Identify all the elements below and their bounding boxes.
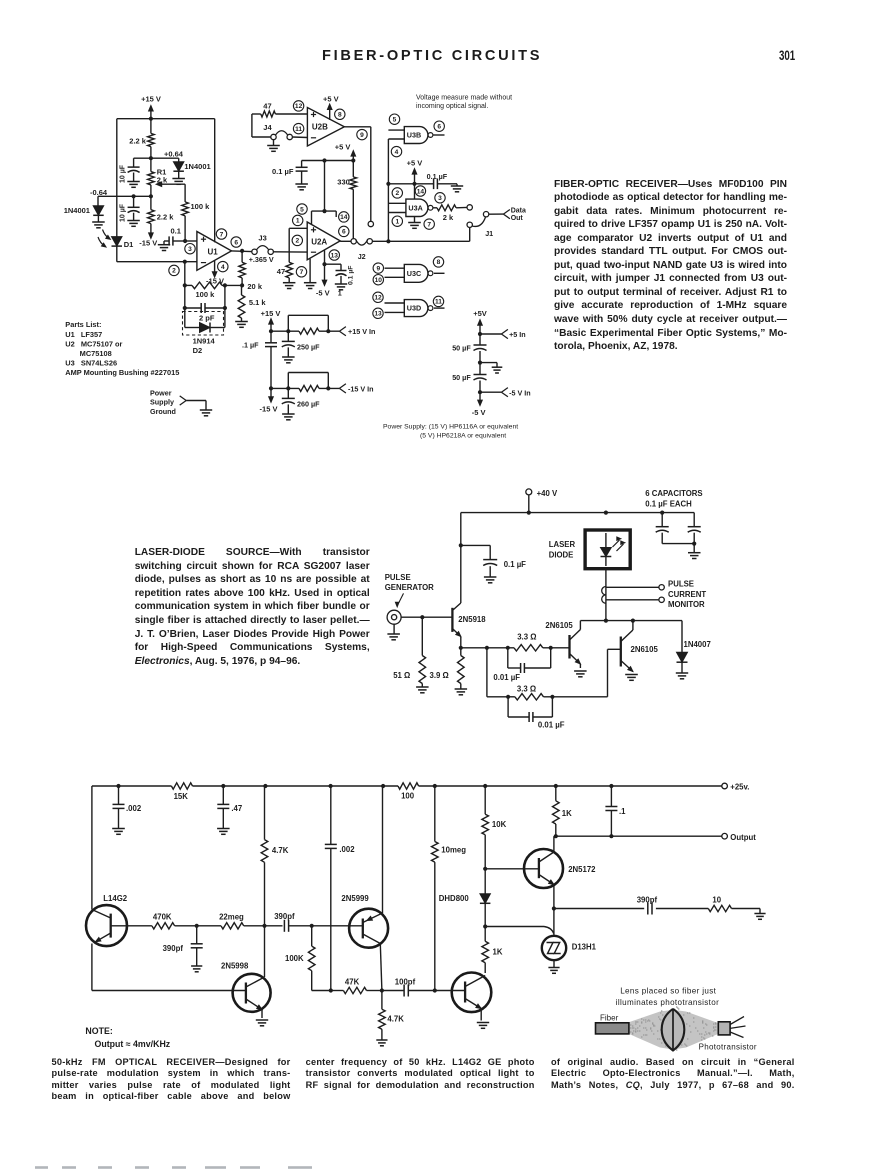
- laser cathode rail: [580, 619, 682, 623]
- svg-text:1: 1: [296, 218, 300, 225]
- svg-text:2 pF: 2 pF: [199, 314, 215, 323]
- +5V arrow right supply: [473, 309, 487, 334]
- jumper J2: [340, 239, 372, 261]
- wire node A to 10uF cap: [134, 157, 151, 159]
- capacitor 100pf: [382, 977, 435, 996]
- resistor 47 to ground at U2A input: [277, 252, 296, 288]
- resistor 22meg: [219, 913, 244, 929]
- diode 1N914 D2 in dashed box: [183, 308, 225, 355]
- svg-text:+5 V: +5 V: [323, 94, 339, 103]
- resistor 20 k: [239, 251, 263, 291]
- svg-text:J4: J4: [263, 123, 272, 132]
- svg-text:2N5918: 2N5918: [458, 615, 486, 624]
- node: [420, 615, 424, 619]
- svg-text:J1: J1: [485, 229, 493, 238]
- jumper J1: [467, 212, 493, 239]
- bias box left edge wire: [116, 119, 118, 262]
- svg-text:+15 V: +15 V: [141, 95, 161, 104]
- resistor 2.2 k upper: [129, 119, 154, 159]
- svg-text:Phototransistor: Phototransistor: [699, 1043, 757, 1052]
- svg-text:illuminates phototransistor: illuminates phototransistor: [616, 998, 719, 1007]
- svg-text:0.1: 0.1: [171, 227, 181, 236]
- bias box rail (top edge): [117, 118, 215, 120]
- capacitor 390pf shunt: [163, 926, 203, 972]
- resistor 1K lower: [482, 927, 503, 974]
- diode DHD800: [439, 894, 491, 927]
- svg-text:0.01 µF: 0.01 µF: [538, 721, 565, 730]
- left rail drop: [460, 513, 462, 603]
- transistor 2N5999: [341, 894, 388, 991]
- pin 2: [292, 235, 302, 245]
- photodiode D1: [98, 230, 133, 250]
- caption column 3: [0, 0, 894, 1]
- pin 10: [373, 275, 383, 285]
- svg-text:100pf: 100pf: [395, 977, 416, 986]
- svg-text:LASER: LASER: [549, 540, 576, 549]
- pin 6: [231, 237, 241, 247]
- resistor 2.2 k lower with -15V arrow: [139, 196, 174, 247]
- wire up-over to U2A pin1: [289, 228, 307, 252]
- svg-text:2 k: 2 k: [443, 213, 454, 222]
- svg-text:8: 8: [338, 112, 342, 119]
- svg-text:+5 V: +5 V: [335, 142, 351, 151]
- svg-text:-5 V In: -5 V In: [509, 388, 531, 397]
- row 2 tap wire: [487, 648, 510, 699]
- resistor 10meg: [432, 786, 467, 991]
- pin 8: [335, 109, 345, 119]
- wire node A to diode branch: [151, 157, 179, 159]
- svg-text:AMP Mounting Bushing #227015: AMP Mounting Bushing #227015: [65, 368, 179, 377]
- svg-text:10 µF: 10 µF: [120, 203, 127, 222]
- svg-text:MONITOR: MONITOR: [668, 600, 705, 609]
- svg-text:100 k: 100 k: [196, 290, 216, 299]
- caption: fiber-optic receiver: [0, 0, 894, 1]
- svg-text:13: 13: [374, 311, 382, 318]
- resistor 4.7K no.2: [376, 991, 404, 1046]
- page number 301: [779, 48, 795, 63]
- svg-text:3.9 Ω: 3.9 Ω: [430, 671, 449, 680]
- node: [483, 867, 487, 871]
- svg-text:U3 SN74LS26: U3 SN74LS26: [65, 358, 117, 367]
- pin 4: [391, 146, 401, 156]
- svg-text:+15 V In: +15 V In: [348, 327, 375, 336]
- svg-text:GENERATOR: GENERATOR: [385, 583, 434, 592]
- pulse current monitor terminals: [606, 580, 706, 610]
- -15 V arrow below U1: [206, 260, 224, 285]
- note output: [85, 1026, 112, 1036]
- diode 1N4007: [676, 621, 711, 679]
- node: [549, 646, 553, 650]
- svg-text:14: 14: [340, 214, 348, 221]
- caption column 2: [0, 0, 894, 1]
- resistor 15K in rail: [171, 783, 192, 801]
- NAND gate U3D: [385, 300, 445, 317]
- pin 14: [415, 186, 425, 196]
- capacitor 0.1 at U1 + input: [158, 227, 185, 251]
- node: [550, 695, 554, 699]
- pin 3: [185, 244, 195, 254]
- svg-text:.002: .002: [126, 804, 142, 813]
- +15 V arrow left supply: [261, 309, 281, 331]
- svg-text:Parts List:: Parts List:: [65, 320, 101, 329]
- svg-text:1N4001: 1N4001: [184, 162, 210, 171]
- pin 13: [373, 308, 383, 318]
- pin 12: [293, 101, 303, 111]
- wire U2B loop left: [252, 114, 271, 137]
- node A junction: [149, 156, 153, 160]
- node: [262, 924, 266, 928]
- pin 14: [339, 212, 349, 222]
- note: voltage measure annotation: [416, 94, 512, 110]
- svg-text:9: 9: [376, 265, 380, 272]
- svg-text:10: 10: [375, 277, 383, 284]
- svg-text:.1: .1: [619, 807, 626, 816]
- NAND gate U3B: [388, 127, 444, 144]
- top supply rail: [461, 510, 694, 514]
- svg-text:1N914: 1N914: [193, 336, 216, 345]
- svg-text:0.1 µF: 0.1 µF: [504, 560, 526, 569]
- capacitor bank ground: [662, 542, 700, 559]
- feedback network 100 k: [183, 262, 242, 299]
- resistor 100 k input: [182, 184, 210, 241]
- pin 3: [435, 193, 445, 203]
- wire: [244, 925, 283, 927]
- capacitor 260 uF: [282, 388, 320, 419]
- node: U1 + input junction: [183, 239, 187, 243]
- jumper J4: [263, 123, 292, 140]
- pin 5: [297, 204, 307, 214]
- resistor 470K: [152, 913, 175, 929]
- pulse generator jack: [385, 573, 434, 640]
- pin 11: [433, 296, 443, 306]
- svg-text:2: 2: [295, 238, 299, 245]
- svg-text:7: 7: [220, 231, 224, 238]
- svg-text:Voltage measure made without: Voltage measure made without: [416, 94, 512, 101]
- svg-text:4.7K: 4.7K: [387, 1015, 404, 1024]
- svg-text:U3C: U3C: [407, 269, 421, 278]
- svg-text:47: 47: [263, 101, 271, 110]
- svg-text:4: 4: [395, 149, 399, 156]
- svg-text:47: 47: [277, 267, 285, 276]
- transistor 2N6105 no.2: [621, 621, 659, 681]
- pin 2: [392, 188, 402, 198]
- svg-text:+0.64: +0.64: [164, 150, 184, 159]
- collector wire 2N5999: [382, 786, 384, 913]
- capacitor 390pf series: [274, 912, 312, 932]
- svg-text:-15 V: -15 V: [139, 238, 157, 247]
- svg-text:Fiber: Fiber: [600, 1014, 619, 1023]
- capacitor .1: [605, 786, 626, 836]
- svg-text:6: 6: [437, 124, 441, 131]
- +5V rail wire: [302, 160, 354, 162]
- svg-text:1K: 1K: [493, 947, 503, 956]
- svg-text:51 Ω: 51 Ω: [393, 671, 410, 680]
- svg-text:1: 1: [338, 288, 342, 297]
- wire to 2N6105 no.2 base: [544, 649, 621, 697]
- svg-text:-0.64: -0.64: [90, 188, 108, 197]
- capacitor 50 uF upper: [452, 334, 486, 363]
- svg-text:D13H1: D13H1: [572, 943, 597, 952]
- svg-text:U3B: U3B: [407, 131, 421, 140]
- laser diode box: [549, 530, 630, 569]
- svg-text:100K: 100K: [285, 954, 304, 963]
- svg-text:390pf: 390pf: [637, 895, 658, 904]
- +5 V arrow at U3A: [407, 158, 423, 184]
- wire DHD800 node to 2N5172 base: [485, 868, 539, 870]
- svg-text:Power Supply: (15 V) HP6116A o: Power Supply: (15 V) HP6116A or equivale…: [383, 423, 518, 430]
- resistor 3.3 ohm lower: [508, 685, 543, 700]
- svg-text:D2: D2: [193, 346, 203, 355]
- output rail: [554, 833, 757, 842]
- resistor 3.3 ohm upper: [514, 633, 543, 651]
- pin 1: [293, 215, 303, 225]
- +5 In terminal: [478, 329, 526, 338]
- svg-text:4: 4: [221, 264, 225, 271]
- svg-text:2N5172: 2N5172: [568, 865, 596, 874]
- svg-text:Output: Output: [730, 833, 756, 842]
- svg-text:.47: .47: [231, 804, 242, 813]
- pin 9: [373, 263, 383, 273]
- svg-text:U2B: U2B: [312, 123, 328, 132]
- capacitor 10 uF upper: [120, 158, 140, 187]
- svg-text:-5 V: -5 V: [472, 408, 486, 417]
- svg-text:-5 V: -5 V: [316, 289, 330, 298]
- bias box bottom wire to U1 - input: [117, 261, 197, 263]
- capacitor bank left 0.1uF: [656, 513, 669, 544]
- svg-text:12: 12: [295, 103, 303, 110]
- pin 2: [169, 265, 179, 275]
- pin 7: [216, 229, 226, 239]
- resistor 10 output: [656, 896, 760, 912]
- +15 V supply label and arrow: [141, 95, 161, 119]
- pin 11: [293, 123, 303, 133]
- capacitor 250 uF: [282, 331, 320, 363]
- capacitor 0.1 uF laser supply: [461, 545, 526, 582]
- svg-text:U2A: U2A: [311, 237, 327, 246]
- +5 V at U2B: [323, 94, 339, 120]
- svg-text:1N4001: 1N4001: [64, 206, 90, 215]
- power supply note: [383, 423, 518, 439]
- vertical bus wire U3: [387, 139, 389, 241]
- pin 4: [218, 261, 228, 271]
- svg-text:U1: U1: [208, 248, 219, 257]
- potentiometer R1 2 k: [148, 158, 186, 196]
- base wire Q3: [433, 988, 465, 992]
- svg-text:8: 8: [437, 259, 441, 266]
- pin 6: [339, 226, 349, 236]
- pin 13: [329, 250, 339, 260]
- svg-text:J3: J3: [258, 234, 266, 243]
- U1 output wire: [232, 250, 252, 253]
- svg-text:U3D: U3D: [407, 304, 421, 313]
- op-amp U1 LF357: [197, 232, 232, 271]
- svg-text:U3A: U3A: [408, 203, 422, 212]
- emitter follower collector wire 2N5998: [264, 926, 266, 977]
- U2B output wire to open terminal: [344, 127, 373, 227]
- light cone: [628, 1010, 718, 1050]
- svg-text:10meg: 10meg: [441, 846, 466, 855]
- svg-text:390pf: 390pf: [274, 912, 295, 921]
- svg-text:390pf: 390pf: [163, 944, 184, 953]
- node: [552, 906, 556, 910]
- scan artifacts bottom edge: [35, 1166, 312, 1169]
- +5 V arrow at 330: [335, 142, 356, 160]
- +25v terminal: [722, 783, 750, 792]
- svg-text:100: 100: [401, 792, 415, 801]
- svg-text:+15 V: +15 V: [261, 309, 281, 318]
- pin 5: [389, 114, 399, 124]
- capacitor 10 uF lower: [120, 196, 140, 226]
- svg-text:6 CAPACITORS: 6 CAPACITORS: [645, 489, 702, 498]
- svg-text:Power: Power: [150, 388, 172, 397]
- NAND gate U3C: [385, 264, 445, 282]
- svg-text:12: 12: [374, 295, 382, 302]
- node: U1 output: [240, 249, 244, 253]
- svg-text:9: 9: [360, 132, 364, 139]
- svg-text:11: 11: [295, 126, 302, 133]
- svg-text:1K: 1K: [562, 809, 572, 818]
- resistor 330: [337, 161, 356, 239]
- output coupling wire: [554, 908, 644, 910]
- svg-text:PULSE: PULSE: [385, 573, 411, 582]
- svg-text:(5 V) HP6218A or equivalent: (5 V) HP6218A or equivalent: [420, 432, 506, 439]
- Power Supply Ground terminal: [150, 388, 212, 416]
- ground at J4: [267, 140, 280, 152]
- svg-text:2N5998: 2N5998: [221, 962, 249, 971]
- ground at U2A pin7: [304, 259, 317, 289]
- svg-text:Ground: Ground: [150, 407, 176, 416]
- caption column 1: [0, 0, 894, 1]
- wire J2 to U3 node: [372, 240, 388, 242]
- transistor Q3: [452, 973, 492, 1029]
- +15 row wire and loop: [271, 315, 339, 334]
- svg-text:260 µF: 260 µF: [297, 400, 320, 409]
- resistor 100 in rail: [398, 783, 419, 801]
- svg-text:Supply: Supply: [150, 398, 174, 407]
- svg-text:.1 µF: .1 µF: [242, 341, 259, 350]
- -15 V arrow down: [260, 388, 278, 413]
- lens illustration annotation: [616, 986, 719, 1007]
- svg-text:6: 6: [234, 239, 238, 246]
- svg-text:3.3 Ω: 3.3 Ω: [517, 633, 536, 642]
- svg-text:1: 1: [395, 219, 399, 226]
- diode 1N4001 upper: [172, 158, 210, 184]
- svg-text:13: 13: [331, 252, 339, 259]
- -15 row wire and loop: [271, 373, 339, 392]
- node: [322, 158, 326, 162]
- svg-text:11: 11: [435, 299, 442, 306]
- svg-text:1N4007: 1N4007: [684, 640, 711, 649]
- base network wire: [111, 925, 152, 927]
- svg-text:L14G2: L14G2: [103, 894, 127, 903]
- svg-text:2N6105: 2N6105: [631, 645, 659, 654]
- svg-text:0.1 µF: 0.1 µF: [272, 167, 294, 176]
- page header title: [322, 48, 562, 64]
- svg-text:14: 14: [417, 188, 425, 195]
- node: +15V entry junction: [149, 117, 153, 121]
- resistor 4.7K no.1: [261, 786, 289, 926]
- svg-text:15K: 15K: [174, 792, 189, 801]
- pin 7: [424, 219, 434, 229]
- laser diode cathode wire with pickup loops: [602, 569, 606, 621]
- node: 20k bottom: [240, 283, 244, 287]
- caption: laser-diode source: [0, 0, 894, 1]
- capacitor .002 no.1: [112, 786, 142, 834]
- node: [310, 924, 314, 928]
- node: [351, 158, 355, 162]
- svg-text:5: 5: [300, 206, 304, 213]
- svg-text:Data: Data: [511, 207, 526, 214]
- capacitor 0.1 uF at U2A pin 13: [325, 264, 355, 297]
- svg-text:+5 V: +5 V: [407, 158, 423, 167]
- capacitor 390pf output: [637, 895, 658, 914]
- wire to U1 + input: [185, 240, 197, 242]
- svg-text:7: 7: [300, 269, 304, 276]
- svg-text:3: 3: [188, 246, 192, 253]
- capacitor .47: [217, 786, 242, 834]
- svg-text:3.3 Ω: 3.3 Ω: [517, 685, 536, 694]
- svg-text:5.1 k: 5.1 k: [249, 298, 267, 307]
- wire J3 to U2A - input: [273, 251, 307, 253]
- resistor 5.1 k: [235, 285, 266, 327]
- svg-text:2: 2: [395, 190, 399, 197]
- +5V wire with 0.1 uF to ground: [386, 172, 463, 192]
- wire to 2N6105 no.1 base: [543, 647, 570, 649]
- wire J4 to U2B - input: [292, 136, 307, 139]
- resistor 47K: [329, 977, 384, 993]
- capacitor bank right 0.1uF: [688, 513, 701, 544]
- transistor 2N5918: [452, 603, 486, 648]
- svg-text:50 µF: 50 µF: [452, 344, 471, 353]
- svg-text:3: 3: [438, 195, 442, 202]
- svg-text:DIODE: DIODE: [549, 550, 574, 559]
- svg-text:2: 2: [172, 268, 176, 275]
- pin 1: [392, 216, 402, 226]
- svg-text:2N5999: 2N5999: [341, 894, 369, 903]
- svg-text:0.1 µF EACH: 0.1 µF EACH: [645, 500, 692, 509]
- capacitor 0.01 uF lower loop: [508, 697, 565, 730]
- transistor 2N5172: [524, 836, 596, 908]
- phototransistor L14G2: [86, 786, 128, 991]
- transistor 2N5998: [221, 962, 271, 1026]
- svg-text:0.1 µF: 0.1 µF: [427, 172, 448, 181]
- svg-text:J2: J2: [358, 252, 366, 261]
- 6 capacitors note: [645, 489, 702, 509]
- pin 8: [433, 257, 443, 267]
- capacitor 50 uF lower: [452, 363, 486, 393]
- resistor 3.9 ohm: [430, 648, 468, 695]
- svg-text:0.1 µF: 0.1 µF: [348, 266, 355, 285]
- svg-text:+25v.: +25v.: [730, 783, 749, 792]
- pin 7: [296, 267, 306, 277]
- svg-text:+.365 V: +.365 V: [249, 255, 274, 264]
- phototransistor chip: [699, 1017, 757, 1052]
- -5 V arrow below U2A: [316, 250, 330, 297]
- svg-text:5: 5: [393, 117, 397, 124]
- pin 6: [434, 121, 444, 131]
- resistor 10K: [482, 786, 507, 894]
- node: [195, 924, 199, 928]
- wire J1 to U3 bus: [388, 228, 469, 242]
- svg-text:50 µF: 50 µF: [452, 373, 471, 382]
- emitter node row: [459, 646, 514, 650]
- jumper J3: [249, 234, 274, 265]
- svg-text:+5V: +5V: [473, 309, 487, 318]
- svg-text:470K: 470K: [153, 913, 172, 922]
- svg-text:4.7K: 4.7K: [272, 846, 289, 855]
- top rail circuit 3: [92, 784, 725, 788]
- wire +5V node down to U2A: [312, 161, 337, 225]
